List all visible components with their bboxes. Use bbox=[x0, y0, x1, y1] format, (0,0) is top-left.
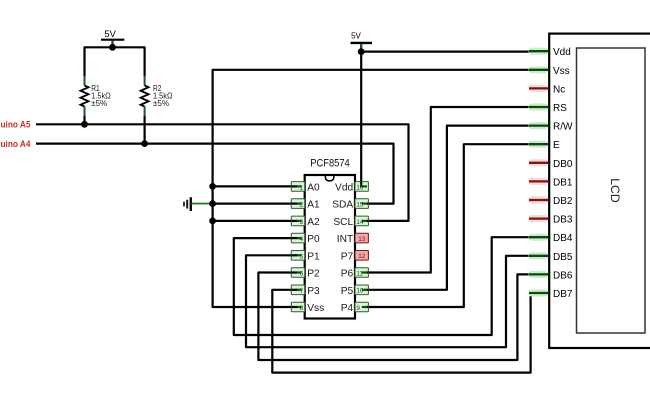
LCD pin R/W bbox=[529, 122, 549, 129]
svg-text:Vss: Vss bbox=[553, 66, 570, 77]
LCD pin DB4 bbox=[529, 234, 549, 241]
pin 3 box A2 bbox=[291, 216, 304, 226]
svg-text:E: E bbox=[553, 140, 560, 151]
wire net DB6 (PCF8574 P2 to LCD DB6) bbox=[258, 273, 529, 361]
svg-text:P1: P1 bbox=[307, 251, 320, 262]
wire A1 to ground rail bbox=[213, 203, 292, 205]
svg-text:P6: P6 bbox=[341, 269, 354, 280]
wire R1 bottom to A5 bbox=[83, 116, 85, 125]
power symbol 5V (left) bbox=[101, 29, 124, 47]
svg-text:A2: A2 bbox=[307, 217, 320, 228]
svg-text:SDA: SDA bbox=[332, 200, 353, 211]
LCD pin DB2 (unconnected) bbox=[529, 196, 549, 203]
svg-text:P3: P3 bbox=[307, 286, 320, 297]
svg-text:Vdd: Vdd bbox=[335, 183, 353, 194]
wire A2 to ground rail bbox=[213, 220, 292, 222]
svg-text:DB5: DB5 bbox=[553, 252, 573, 263]
wire 5V to LCD Vdd bbox=[361, 50, 529, 52]
node junction 5V left bbox=[109, 44, 116, 51]
svg-text:DB7: DB7 bbox=[553, 289, 573, 300]
svg-text:Vss: Vss bbox=[307, 303, 324, 314]
svg-text:INT: INT bbox=[337, 234, 353, 245]
node junction R2/A4 bbox=[141, 140, 148, 147]
LCD module outline bbox=[549, 34, 650, 348]
svg-text:4: 4 bbox=[300, 236, 304, 243]
pin 9 box P4 bbox=[355, 302, 368, 312]
svg-text:13: 13 bbox=[358, 236, 366, 243]
wire net A5 (Arduino A5 to SCL) bbox=[36, 124, 409, 221]
LCD pin DB1 (unconnected) bbox=[529, 178, 549, 185]
pin 10 box P5 bbox=[355, 285, 368, 295]
LCD pin DB7 bbox=[529, 289, 549, 296]
LCD pin DB5 bbox=[529, 252, 549, 259]
wire net A4 (Arduino A4 to SDA) bbox=[36, 144, 394, 204]
svg-text:uino A5: uino A5 bbox=[1, 119, 31, 129]
svg-text:10: 10 bbox=[356, 288, 364, 295]
svg-text:P0: P0 bbox=[307, 234, 320, 245]
svg-text:3: 3 bbox=[300, 219, 304, 226]
node junction rail/A0 bbox=[209, 183, 216, 190]
svg-text:PCF8574: PCF8574 bbox=[310, 158, 350, 170]
wire net DB7 (PCF8574 P3 to LCD DB7) bbox=[272, 290, 530, 373]
svg-text:2: 2 bbox=[300, 202, 304, 209]
pin 15 box SDA bbox=[355, 199, 368, 209]
LCD pin DB0 (unconnected) bbox=[529, 159, 549, 166]
svg-text:SCL: SCL bbox=[333, 217, 353, 228]
node junction R1/A5 bbox=[81, 121, 88, 128]
pin 2 box A1 bbox=[291, 199, 304, 209]
svg-text:5V: 5V bbox=[104, 29, 116, 40]
op-amp U1 PCF8574 body bbox=[305, 158, 355, 319]
wire net RS (LCD RS to PCF8574 P6) bbox=[367, 107, 529, 273]
LCD pin Vdd bbox=[529, 48, 549, 55]
wire net DB4 (PCF8574 P0 to LCD DB4) bbox=[234, 237, 529, 335]
pin 16 box Vdd bbox=[355, 182, 368, 192]
wire net E (LCD E to PCF8574 P4) bbox=[367, 144, 529, 307]
wire net R/W (LCD R/W to PCF8574 P5) bbox=[367, 126, 529, 290]
power symbol 5V (top center) bbox=[351, 32, 373, 52]
svg-text:8: 8 bbox=[300, 305, 304, 312]
svg-text:Vdd: Vdd bbox=[553, 47, 571, 58]
node junction rail/A2 bbox=[209, 218, 216, 225]
svg-text:15: 15 bbox=[356, 202, 364, 209]
LCD pin Vss bbox=[529, 66, 549, 73]
svg-text:9: 9 bbox=[356, 305, 360, 312]
node junction 5V right bbox=[358, 48, 365, 55]
resistor R2 bbox=[141, 76, 173, 116]
svg-text:RS: RS bbox=[553, 103, 567, 114]
pin 14 box SCL bbox=[355, 216, 368, 226]
svg-text:12: 12 bbox=[358, 253, 366, 260]
LCD pin RS bbox=[529, 103, 549, 110]
pin 5 box P1 bbox=[291, 251, 304, 261]
resistor R1 bbox=[81, 76, 111, 116]
pin 12 box P7 (unconnected) bbox=[355, 251, 368, 261]
LCD pin DB3 (unconnected) bbox=[529, 215, 549, 222]
svg-text:±5%: ±5% bbox=[153, 99, 169, 108]
LCD pin Nc (unconnected) bbox=[529, 85, 549, 92]
pin 13 box INT (unconnected) bbox=[355, 233, 368, 243]
svg-text:DB3: DB3 bbox=[553, 215, 573, 226]
svg-text:LCD: LCD bbox=[608, 178, 620, 203]
node junction rail/A1/ground bbox=[209, 200, 216, 207]
svg-text:±5%: ±5% bbox=[91, 99, 107, 108]
svg-text:6: 6 bbox=[300, 271, 304, 278]
svg-text:A1: A1 bbox=[307, 200, 320, 211]
wire 5V rail left (R1 top to R2 top) bbox=[85, 47, 145, 76]
svg-text:R/W: R/W bbox=[553, 122, 573, 133]
pin 6 box P2 bbox=[291, 268, 304, 278]
LCD pin DB6 bbox=[529, 271, 549, 278]
svg-text:DB6: DB6 bbox=[553, 270, 573, 281]
svg-text:5V: 5V bbox=[351, 32, 361, 41]
svg-text:A0: A0 bbox=[307, 183, 320, 194]
svg-text:11: 11 bbox=[356, 270, 363, 277]
svg-text:1: 1 bbox=[300, 184, 304, 191]
svg-text:uino A4: uino A4 bbox=[1, 139, 32, 149]
pin 1 box A0 bbox=[291, 182, 304, 192]
svg-text:P2: P2 bbox=[307, 269, 320, 280]
wire 5V to PCF8574 Vdd pin16 bbox=[360, 52, 362, 182]
svg-text:P4: P4 bbox=[341, 303, 354, 314]
svg-text:Nc: Nc bbox=[553, 84, 565, 95]
wire A0 to ground rail bbox=[213, 185, 292, 187]
svg-text:14: 14 bbox=[356, 219, 364, 226]
pin 8 box Vss bbox=[291, 302, 304, 312]
ground bbox=[184, 197, 213, 211]
svg-text:P5: P5 bbox=[341, 286, 354, 297]
svg-text:5: 5 bbox=[300, 253, 304, 260]
svg-text:DB2: DB2 bbox=[553, 196, 573, 207]
svg-text:DB0: DB0 bbox=[553, 159, 573, 170]
wire net GND/Vss (LCD Vss to rail to PCF8574 Vss pin8) bbox=[213, 70, 529, 307]
pin 4 box P0 bbox=[291, 233, 304, 243]
svg-text:P7: P7 bbox=[341, 251, 354, 262]
LCD pin E bbox=[529, 141, 549, 148]
pin 7 box P3 bbox=[291, 285, 304, 295]
pin 11 box P6 bbox=[355, 268, 368, 278]
svg-text:DB1: DB1 bbox=[553, 177, 573, 188]
svg-text:DB4: DB4 bbox=[553, 233, 573, 244]
svg-text:7: 7 bbox=[300, 288, 304, 295]
svg-text:16: 16 bbox=[356, 184, 364, 191]
wire R2 bottom to A4 bbox=[144, 116, 146, 144]
wire net DB5 (PCF8574 P1 to LCD DB5) bbox=[246, 255, 529, 347]
